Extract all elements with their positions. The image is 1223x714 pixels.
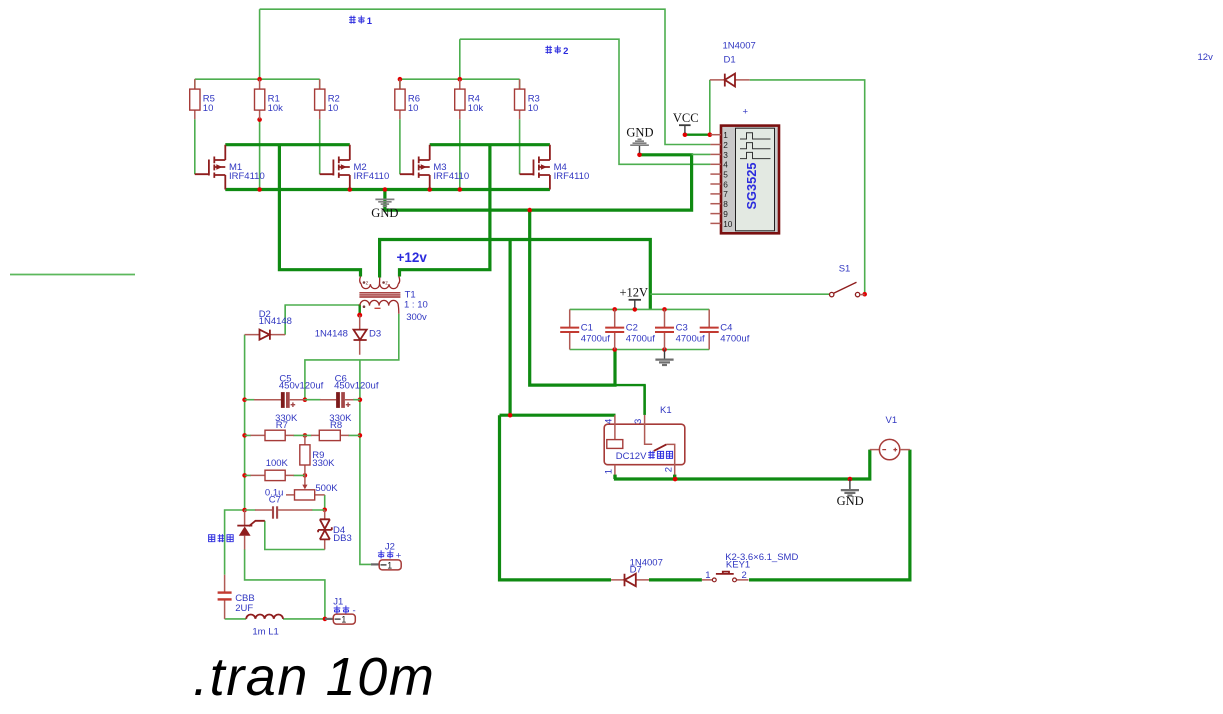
svg-text:4700uf: 4700uf: [676, 333, 705, 344]
wire scr cathode to J1: [245, 549, 325, 619]
wire scr gate to d4: [265, 521, 325, 550]
svg-text:K1: K1: [660, 405, 672, 416]
junction J1 node: [323, 617, 328, 622]
svg-text:6: 6: [723, 179, 728, 189]
junction +12V symbol: [633, 307, 638, 312]
transistor M2: [320, 145, 390, 190]
wire secondary right loop: [305, 314, 399, 400]
svg-text:KEY1: KEY1: [726, 559, 750, 570]
junction secondary left pin: [357, 313, 362, 318]
svg-text:4700uf: 4700uf: [720, 333, 749, 344]
resistor R3: [515, 79, 540, 119]
svg-text:1: 1: [604, 469, 615, 474]
wire R6 to M3 gate: [399, 79, 401, 174]
wire R2 to M2 gate: [319, 79, 321, 174]
wire net 信号1 top: [260, 9, 711, 144]
junction R1 bottom: [257, 117, 262, 122]
svg-text:S1: S1: [839, 264, 851, 275]
wire C6 column down to J2: [360, 360, 371, 565]
junction C3 bottom: [662, 347, 667, 352]
svg-text:1: 1: [387, 560, 392, 570]
junction C3 top: [662, 307, 667, 312]
resistor R8 330K: [305, 413, 360, 441]
svg-text:1: 1: [341, 615, 346, 625]
svg-text:10: 10: [328, 103, 339, 114]
diac D4 DB3: [318, 510, 352, 550]
svg-text:C7: C7: [269, 495, 281, 506]
junction 100K left: [242, 473, 247, 478]
wire drain trunk to transformer right: [400, 145, 490, 277]
wire R5 to M1 gate: [194, 79, 196, 174]
IC U1 SG3525: [710, 107, 779, 234]
capacitor C3: [655, 309, 705, 349]
wire d1 to pin1: [709, 80, 711, 135]
wire D2 up: [284, 305, 286, 335]
svg-text:+: +: [396, 550, 402, 561]
wire bottom loop mid: [649, 578, 702, 581]
resistor R7 330K: [245, 413, 305, 441]
junction R6 top rail: [398, 77, 403, 82]
potentiometer 500K: [286, 475, 338, 500]
pushbutton KEY1: [702, 552, 799, 582]
svg-text:+12V: +12V: [620, 286, 649, 300]
junction C2 bottom: [612, 347, 617, 352]
capacitor C6: [305, 373, 379, 408]
svg-text:GND: GND: [626, 125, 653, 139]
svg-text:C3: C3: [676, 323, 688, 334]
vcc symbol: [673, 111, 699, 133]
diode D7 1N4007: [611, 558, 663, 587]
svg-text:3: 3: [633, 419, 644, 424]
svg-text:10: 10: [408, 103, 419, 114]
svg-text:4: 4: [723, 160, 728, 170]
svg-text:1 : 10: 1 : 10: [404, 299, 428, 310]
svg-text:3: 3: [723, 150, 728, 160]
junction gnd trunk: [527, 208, 532, 213]
svg-text:1: 1: [367, 16, 373, 27]
svg-text:2: 2: [663, 467, 674, 472]
svg-text:-: -: [353, 606, 356, 617]
net label 信号1: [349, 16, 373, 27]
wire C7 row left corner: [225, 510, 245, 575]
svg-text:1: 1: [705, 570, 710, 581]
svg-text:C4: C4: [720, 323, 732, 334]
svg-text:1N4148: 1N4148: [259, 316, 292, 327]
junction 100K right: [303, 473, 308, 478]
wire left resistor top rail: [195, 78, 320, 80]
junction C6 right: [358, 397, 363, 402]
svg-text:2: 2: [742, 570, 747, 581]
wire d1 to s1: [750, 80, 865, 294]
wire s1 to +12v: [650, 293, 831, 295]
capacitor CBB 2UF: [218, 575, 255, 619]
switch S1: [830, 264, 865, 297]
transformer T1: [359, 277, 427, 324]
wire cap bank top: [570, 308, 710, 310]
junction R8 right: [358, 433, 363, 438]
svg-text:1N4007: 1N4007: [723, 41, 756, 52]
junction relay pin2: [673, 477, 678, 482]
svg-text:DC12V: DC12V: [616, 451, 647, 462]
wire +12v trunk to relay: [509, 240, 512, 416]
svg-text:1m L1: 1m L1: [252, 627, 278, 638]
svg-text:4700uf: 4700uf: [581, 333, 610, 344]
wire secondary left to D2: [285, 305, 360, 335]
wire R4 to source rail: [459, 119, 461, 189]
svg-text:2: 2: [563, 46, 568, 57]
wire right resistor top rail: [400, 78, 520, 80]
wire drain trunk to transformer left: [279, 145, 360, 277]
svg-text:SG3525: SG3525: [744, 163, 759, 210]
capacitor C4: [700, 309, 750, 349]
svg-text:4: 4: [604, 419, 615, 424]
svg-text:D3: D3: [369, 329, 381, 340]
resistor R4: [455, 79, 484, 119]
svg-text:z: z: [366, 280, 369, 286]
junction R7 R8 mid: [303, 433, 308, 438]
svg-text:D1: D1: [724, 55, 736, 66]
junction VCC pin: [683, 132, 688, 137]
connector J2 输出+: [371, 542, 402, 571]
capacitor C2: [605, 309, 655, 349]
ground symbol at C3: [655, 350, 673, 366]
svg-text:7: 7: [723, 189, 728, 199]
wire pin3 stub to gnd: [692, 153, 711, 155]
svg-text:V1: V1: [886, 415, 898, 426]
svg-text:10k: 10k: [468, 103, 484, 114]
+12V symbol at caps: [620, 286, 649, 308]
svg-text:IRF4110: IRF4110: [554, 171, 590, 182]
connector J1 输出-: [325, 597, 356, 625]
svg-text:450v120uf: 450v120uf: [279, 380, 324, 391]
resistor R5: [190, 79, 215, 119]
svg-text:300v: 300v: [406, 312, 427, 323]
junction S1 right: [862, 292, 867, 297]
junction R1 source rail: [257, 187, 262, 192]
wire source rail: [225, 188, 550, 191]
svg-text:+12v: +12v: [397, 250, 428, 265]
junction R1 top rail: [257, 77, 262, 82]
resistor 100K: [245, 458, 305, 481]
svg-text:10: 10: [528, 103, 539, 114]
svg-text:330K: 330K: [312, 458, 335, 469]
wire drain rail M1 M2: [225, 143, 349, 146]
svg-text:10: 10: [723, 219, 733, 229]
transistor M1: [195, 145, 265, 190]
capacitor C7 0.1u: [245, 487, 325, 518]
svg-text:+: +: [743, 107, 749, 118]
svg-text:1: 1: [723, 130, 728, 140]
junction R4 source rail: [458, 187, 463, 192]
svg-text:C1: C1: [581, 323, 593, 334]
svg-text:10k: 10k: [268, 103, 284, 114]
wire relay pin4 row: [500, 414, 616, 417]
svg-text:IRF4110: IRF4110: [229, 171, 265, 182]
svg-text:.tran 10m: .tran 10m: [193, 647, 436, 707]
wire gnd trunk from source rail: [385, 155, 692, 210]
svg-text:D7: D7: [630, 565, 642, 576]
wire cbb bottom row: [225, 618, 325, 620]
inductor L1 1m: [246, 615, 283, 638]
svg-text:100K: 100K: [266, 458, 289, 469]
resistor R2: [315, 79, 340, 119]
capacitor C5: [245, 373, 324, 408]
junction C2 top: [612, 307, 617, 312]
junction R4 top rail: [458, 77, 463, 82]
svg-text:C2: C2: [626, 323, 638, 334]
wire R1 to source rail: [259, 120, 261, 190]
svg-text:IRF4110: IRF4110: [354, 171, 390, 182]
svg-text:450v120uf: 450v120uf: [334, 380, 379, 391]
svg-text:10: 10: [203, 103, 214, 114]
diode D3 1N4148: [315, 315, 381, 355]
wire D2 left column: [244, 335, 246, 510]
resistor R1: [255, 79, 284, 119]
thyristor SCR 可控硅: [209, 510, 265, 550]
junction GND source rail: [383, 187, 388, 192]
resistor R6: [395, 79, 420, 119]
svg-text:4700uf: 4700uf: [626, 333, 655, 344]
junction relay +12v: [508, 413, 513, 418]
wire gnd branch to relay pin3: [615, 385, 645, 415]
transistor M3: [400, 145, 469, 190]
ground symbol at IC: [626, 125, 653, 153]
net label 信号2: [545, 46, 568, 57]
svg-text:9: 9: [723, 209, 728, 219]
junction C5 left: [242, 397, 247, 402]
wire relay pin3 vertical: [643, 385, 645, 415]
svg-text:J1: J1: [333, 597, 343, 608]
svg-text:VCC: VCC: [673, 111, 699, 125]
ground symbol source rail: [371, 199, 398, 220]
junction GND symbol IC: [637, 153, 642, 158]
junction M2 source: [348, 187, 353, 192]
junction C5 C6 mid: [303, 397, 308, 402]
wire drain rail M3 M4: [430, 143, 550, 146]
svg-text:12v: 12v: [1198, 52, 1214, 63]
capacitor C1: [560, 309, 610, 349]
diode D2 1N4148: [245, 309, 292, 340]
svg-text:1N4148: 1N4148: [315, 329, 348, 340]
voltage source V1: [870, 415, 910, 460]
junction R7 left: [242, 433, 247, 438]
transistor M4: [520, 145, 590, 190]
relay K1: [604, 405, 685, 481]
wire vcc to pin1: [685, 133, 710, 135]
wire R3 to M4 gate: [519, 79, 521, 174]
wire pot column: [324, 495, 326, 510]
svg-text:500K: 500K: [315, 483, 338, 494]
resistor R9 330K vertical: [300, 435, 335, 475]
wire gnd trunk to cap bank: [530, 210, 615, 385]
svg-text:2UF: 2UF: [235, 603, 253, 614]
svg-text:R8: R8: [330, 420, 342, 431]
junction C7 left: [242, 508, 247, 513]
svg-text:GND: GND: [371, 206, 398, 220]
wire secondary left pin: [359, 305, 361, 316]
wire relay bottom rail: [614, 450, 870, 479]
ground symbol at V1: [837, 479, 864, 508]
svg-text:2: 2: [723, 140, 728, 150]
svg-text:z: z: [385, 280, 388, 286]
svg-text:R7: R7: [276, 420, 288, 431]
wire v1 right down: [749, 450, 910, 580]
svg-text:5: 5: [723, 170, 728, 180]
wire +12v rail: [380, 240, 651, 310]
light green free line: [10, 274, 135, 276]
svg-text:DB3: DB3: [333, 533, 351, 544]
wire net 信号2: [460, 39, 711, 164]
junction C7 right D4: [322, 508, 327, 513]
junction GND V1: [848, 477, 853, 482]
wire cap bank bottom: [570, 349, 710, 351]
wire bottom loop left: [500, 415, 612, 580]
junction IC pin1: [708, 132, 713, 137]
svg-text:IRF4110: IRF4110: [433, 171, 469, 182]
diode D1 1N4007: [710, 41, 756, 87]
svg-text:8: 8: [723, 199, 728, 209]
junction M3 source: [427, 187, 432, 192]
svg-text:GND: GND: [837, 494, 864, 508]
